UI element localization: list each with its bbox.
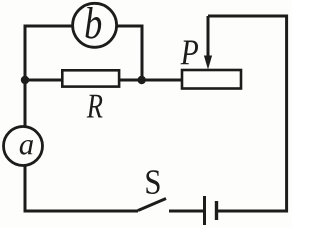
node: junction of meter b branch, R branch and meter a (left)	[21, 76, 29, 84]
node: junction of meter b branch and R branch (right)	[138, 76, 146, 84]
wire: resistor R right lead through right junction to potentiometer P	[119, 79, 184, 82]
switch S (lever)	[138, 199, 166, 211]
battery: long plate (positive)	[203, 196, 206, 225]
potentiometer P wiper arrow	[204, 16, 212, 70]
resistor R	[62, 70, 119, 86]
label S	[146, 170, 159, 194]
potentiometer P (track)	[182, 70, 241, 89]
wire: left junction up to top-left corner, across to meter b	[25, 26, 72, 82]
label P	[181, 41, 199, 65]
meter a (circle symbol)	[4, 127, 43, 166]
wire: meter a down to bottom-left corner, across to switch S left contact	[25, 165, 138, 211]
battery: short plate (negative)	[215, 201, 218, 220]
wire: left junction down to meter a	[24, 78, 27, 127]
wire: switch S right contact to battery positive plate	[169, 210, 205, 213]
wire: battery negative plate to bottom-right corner, up right side, across to P wiper	[208, 16, 287, 211]
label b	[86, 7, 102, 39]
meter b (circle symbol)	[73, 3, 117, 47]
label a	[20, 140, 33, 155]
wire: meter b right side down to right junction	[117, 26, 142, 80]
wire: left junction to resistor R left lead	[25, 79, 63, 82]
label R	[87, 95, 103, 118]
